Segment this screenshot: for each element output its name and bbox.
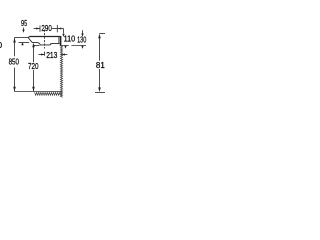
svg-text:720: 720 — [28, 61, 39, 71]
svg-text:850: 850 — [9, 58, 19, 67]
svg-text:130: 130 — [77, 37, 86, 45]
svg-text:290: 290 — [41, 25, 51, 34]
svg-text:95: 95 — [21, 20, 27, 28]
svg-text:810: 810 — [96, 61, 105, 70]
svg-text:110: 110 — [64, 34, 75, 43]
svg-text:213: 213 — [46, 50, 57, 60]
